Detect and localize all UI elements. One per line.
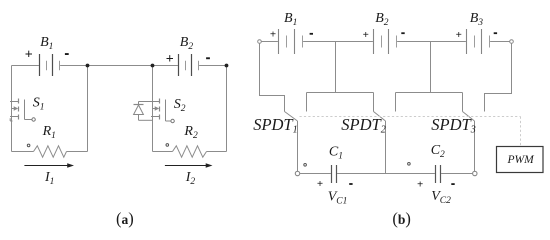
svg-text:R2: R2 <box>183 124 198 141</box>
transistor S2 <box>151 99 171 122</box>
wire left side loop2 <box>152 66 154 152</box>
terminal circle S2 gate <box>171 119 174 122</box>
svg-text:(a): (a) <box>116 209 134 228</box>
node dot B <box>151 64 155 68</box>
battery B3 (b) long plates <box>467 29 482 54</box>
label - of C1 <box>349 183 352 185</box>
label - of B1 (b) <box>310 33 313 35</box>
terminal circle right <box>510 40 514 44</box>
wire left side loop1 <box>11 66 13 152</box>
svg-text:R1: R1 <box>42 124 56 141</box>
svg-text:+: + <box>166 52 174 67</box>
svg-text:(b): (b) <box>392 209 411 228</box>
svg-text:+: + <box>363 29 369 41</box>
svg-text:B3: B3 <box>470 11 484 28</box>
svg-text:VC2: VC2 <box>431 189 451 206</box>
current arrow I2 <box>165 165 209 167</box>
battery B1 (b) long plates <box>279 29 295 54</box>
svg-text:PWM: PWM <box>507 154 536 166</box>
body diode of S2 <box>134 102 153 121</box>
arrowhead S1 <box>14 106 19 110</box>
svg-text:+: + <box>25 47 33 62</box>
wire left outer drop <box>260 43 285 111</box>
terminal circle at R1 <box>27 144 30 147</box>
capacitor C2 <box>436 165 441 183</box>
svg-text:+: + <box>317 178 323 190</box>
svg-text:I2: I2 <box>185 170 196 187</box>
label - of C2 <box>451 183 454 185</box>
wire top b <box>261 41 509 43</box>
dashed link to PWM <box>520 117 522 147</box>
svg-text:+: + <box>270 29 276 41</box>
terminal circle S1 gate <box>32 118 35 121</box>
wire right outer drop <box>485 43 512 111</box>
switch SPDT2 blade <box>374 112 386 122</box>
svg-text:S2: S2 <box>174 97 186 114</box>
wire top loop2 <box>153 65 227 67</box>
terminal circle left <box>258 40 262 44</box>
wire right side loop2 <box>226 66 228 152</box>
battery B2 (b) short plates <box>382 36 397 48</box>
battery B2 (b) long plates <box>374 29 389 54</box>
svg-text:+: + <box>417 178 423 190</box>
svg-text:C2: C2 <box>431 143 445 160</box>
label - of B1 <box>65 53 69 55</box>
svg-text:B1: B1 <box>284 11 297 28</box>
wire top loop1 <box>12 65 153 67</box>
node dot A <box>86 64 90 68</box>
wire T-bar 2 <box>396 93 463 112</box>
battery B2 long plates <box>179 54 192 76</box>
svg-text:I1: I1 <box>44 170 54 187</box>
capacitor C1 <box>332 165 337 183</box>
wire T-bar 1 <box>307 93 374 112</box>
svg-text:VC1: VC1 <box>328 189 348 206</box>
svg-text:+: + <box>456 29 462 41</box>
terminal circle at R2 <box>166 144 169 147</box>
small circle node left <box>304 164 307 167</box>
battery B2 short plates <box>186 61 199 71</box>
battery B1 long plates <box>40 54 53 76</box>
wire bottom loop2 <box>153 151 227 153</box>
current arrow I1 <box>24 165 70 167</box>
small circle node right <box>408 163 411 166</box>
label - of B2 <box>206 57 210 59</box>
switch SPDT2 pole <box>385 121 387 174</box>
svg-text:SPDT3: SPDT3 <box>431 115 475 135</box>
svg-text:SPDT1: SPDT1 <box>253 115 297 135</box>
battery B3 (b) short plates <box>475 36 490 48</box>
resistor R1 <box>34 146 67 157</box>
wire capacitor rail <box>300 173 473 175</box>
battery B1 short plates <box>47 61 60 71</box>
switch SPDT1 pole <box>297 121 299 171</box>
label - of B2 (b) <box>401 32 404 34</box>
switch SPDT1 blade <box>285 112 298 122</box>
node dot C <box>225 64 229 68</box>
switch SPDT3 pole <box>474 121 476 171</box>
wire junction B1-B2 drop <box>335 42 337 93</box>
svg-text:C1: C1 <box>329 144 343 161</box>
switch SPDT3 blade <box>463 112 475 122</box>
arrowhead S2 <box>155 106 160 110</box>
svg-text:SPDT2: SPDT2 <box>341 115 385 135</box>
label - of B3 (b) <box>494 32 497 34</box>
wire junction B2-B3 drop <box>430 42 432 93</box>
terminal circle rail right <box>473 171 477 175</box>
dashed gang link <box>300 116 521 118</box>
PWM block <box>497 147 544 173</box>
svg-text:S1: S1 <box>33 96 45 113</box>
resistor R2 <box>173 146 207 157</box>
battery B1 (b) short plates <box>287 36 303 48</box>
svg-text:B1: B1 <box>40 35 53 52</box>
svg-text:B2: B2 <box>180 35 194 52</box>
wire bottom loop1 <box>12 151 88 153</box>
wire right side loop1 <box>87 66 89 152</box>
transistor S1 <box>10 99 32 122</box>
svg-text:B2: B2 <box>375 11 389 28</box>
terminal circle rail left <box>295 171 299 175</box>
